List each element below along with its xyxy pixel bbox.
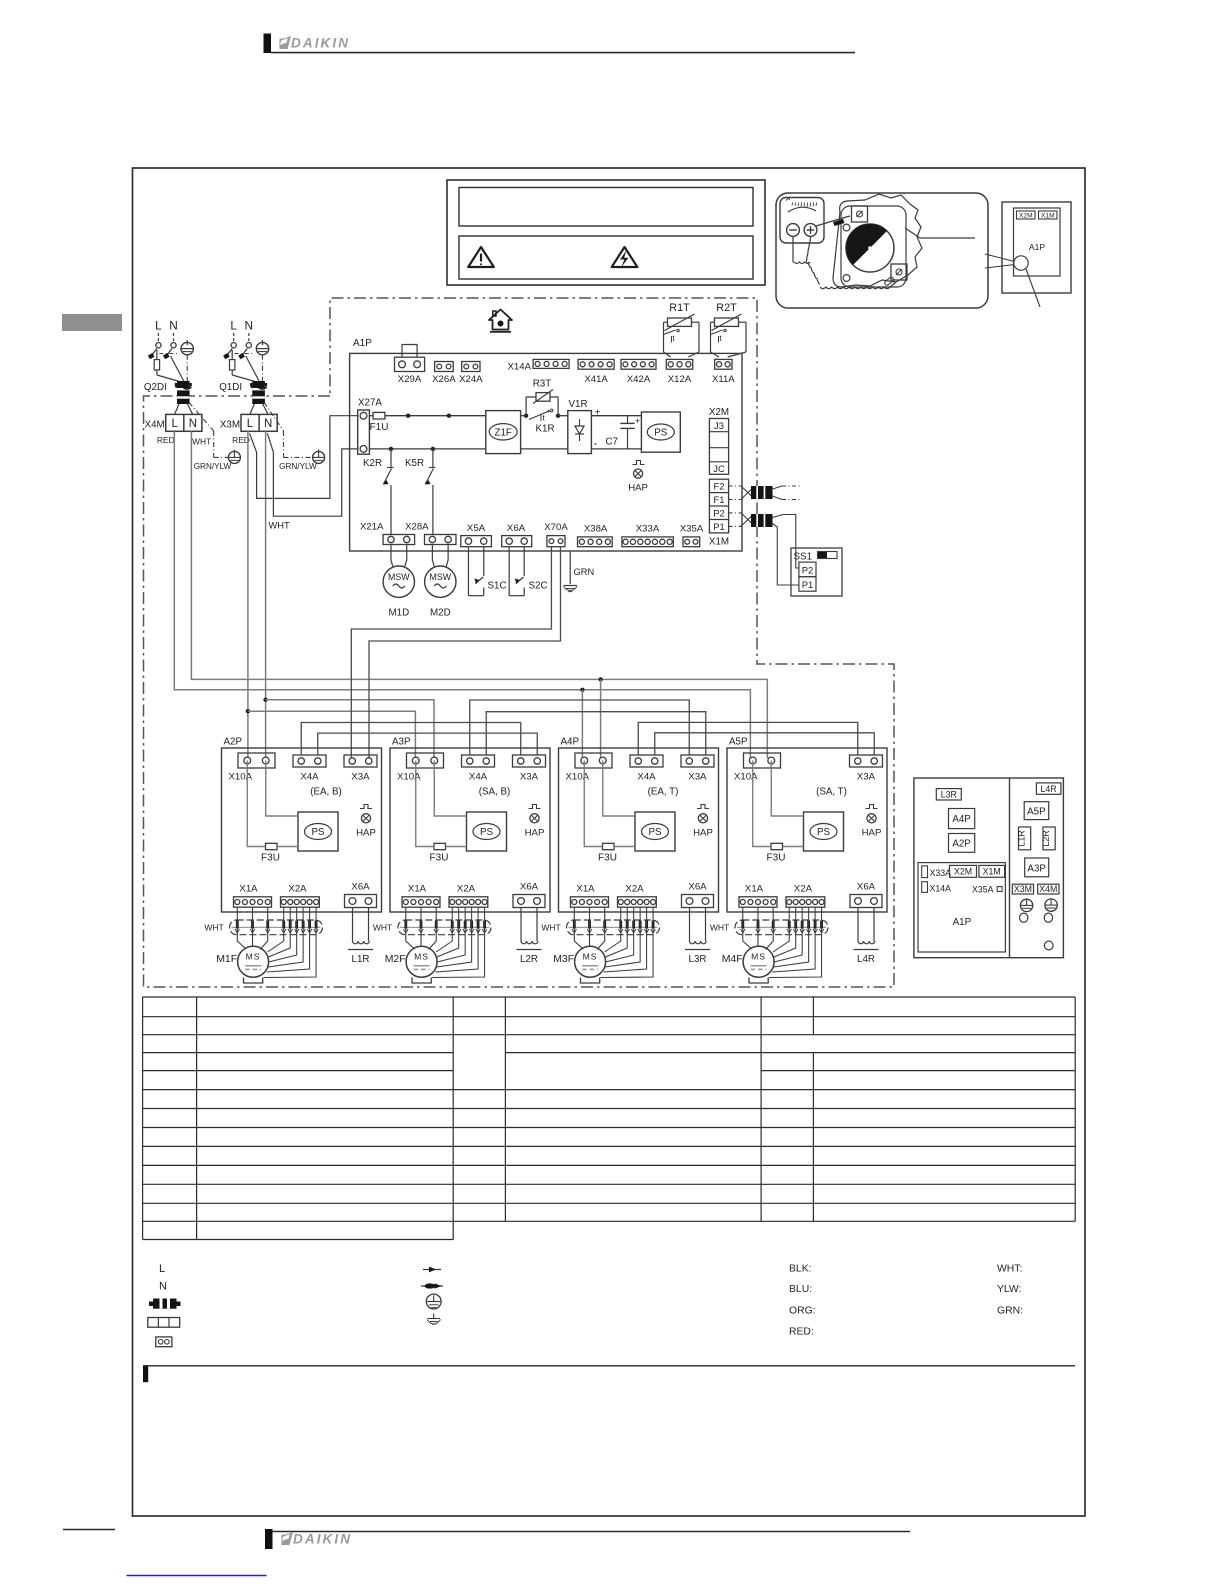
svg-text:X33A: X33A [636,524,660,535]
fan mounting plate [841,206,906,287]
connector X2A (A4P) [618,897,657,907]
pointer lines to service port [985,254,1015,262]
footer link underline [127,1575,267,1577]
svg-text:X3M: X3M [1014,884,1032,894]
junction on X4M-L feed [580,688,584,692]
svg-text:HAP: HAP [356,827,376,838]
motor lead connector (A2P) [230,920,323,935]
svg-text:L4R: L4R [1041,784,1057,794]
svg-text:MSW: MSW [430,572,452,582]
layout X14A [922,882,928,893]
fan motor M3F (A4P) [575,946,606,977]
svg-text:C7: C7 [605,437,618,448]
svg-text:V1R: V1R [568,399,587,410]
legend table grid [143,996,1076,998]
motor lead pins (A3P) [404,921,407,929]
svg-text:RED: RED [157,435,175,445]
warning note title box [459,188,753,227]
connector X1A (A4P) [571,897,609,907]
field wiring F1 lead [729,499,741,501]
limit switch S1C [467,547,469,596]
fan motor M1F (A2P) [238,946,269,977]
connector X1A (A3P) [402,897,440,907]
svg-text:MS: MS [583,952,598,962]
power supply PS [641,412,680,452]
svg-text:X35A: X35A [680,524,704,535]
connector X24A [462,362,480,372]
svg-text:M2D: M2D [430,608,451,619]
legend terminal symbol [156,1337,172,1347]
relay contact K1R [529,411,549,420]
svg-text:X2A: X2A [794,884,813,895]
connector X10A (A2P) [238,753,275,768]
connector X3A (A5P) [850,755,883,767]
fan terminal box lower [891,264,907,280]
internal wiring X10A to PS (A3P) [416,761,434,847]
wire X4M-L (RED) feed [174,431,750,758]
warning note outer box [447,180,765,285]
svg-text:PS: PS [480,827,494,838]
svg-text:F1: F1 [714,494,725,505]
junction on X3M-L feed [246,709,250,713]
fuse F3U (A3P) [434,843,446,849]
svg-text:X2A: X2A [457,884,476,895]
connector X4A (A4P) [630,755,663,767]
svg-text:MS: MS [414,952,429,962]
ferrite output leads to X4M [175,404,180,414]
wire branch to A4P X10A-right [600,679,602,758]
wire X3M-N (WHT) feed [265,431,267,758]
motor lead pins (A5P) [741,921,744,929]
layout label L4R [1036,783,1061,794]
svg-text:S2C: S2C [529,581,548,592]
fuse F3U (A2P) [266,843,278,849]
svg-text:X26A: X26A [432,374,456,385]
svg-text:F3U: F3U [261,853,280,864]
fan board A2P outline [222,748,382,912]
svg-text:A5P: A5P [1027,807,1046,818]
svg-text:SS1: SS1 [794,552,813,563]
earth symbol GRN [564,585,578,587]
wire bus to A3P X10A-left [248,711,416,758]
service port circle [1014,256,1028,270]
fan rotor [846,224,894,272]
layout hole 1 [1020,913,1028,922]
svg-text:M2F: M2F [385,953,406,965]
svg-text:X42A: X42A [627,374,651,385]
svg-text:N: N [159,1281,167,1293]
X1M label plate [1039,211,1058,219]
motor wires X2A (A3P) [436,907,452,952]
unit casing boundary (dash-dot) [144,298,895,987]
svg-text:MS: MS [246,952,261,962]
svg-text:X6A: X6A [507,523,526,534]
connector X12A [666,359,692,369]
svg-text:X4M: X4M [1039,884,1057,894]
svg-text:X14A: X14A [930,884,952,894]
limit switch S2C [508,547,510,596]
svg-text:X2M: X2M [709,407,729,418]
connector X33A [622,537,673,547]
svg-text:PS: PS [817,827,831,838]
svg-text:P2: P2 [802,565,813,576]
wire X70A-right daisy feed [369,547,560,758]
warning note text box [459,236,753,279]
connector X2A (A2P) [281,897,320,907]
svg-text:X1A: X1A [745,884,764,895]
svg-text:HAP: HAP [628,483,648,494]
wire X3M-N to X27A bottom [267,433,357,516]
svg-text:HAP: HAP [525,827,545,838]
wire P-ferrite to SS1 P2 [773,515,799,569]
svg-text:X3A: X3A [688,772,707,783]
svg-text:L: L [247,418,254,430]
svg-text:X3A: X3A [351,772,370,783]
fuse F1U [373,412,385,419]
svg-text:A2P: A2P [952,839,971,850]
svg-text:X29A: X29A [398,374,422,385]
layout label A2P [949,834,975,853]
power supply PS (A3P) [467,812,507,851]
svg-text:PS: PS [311,827,325,838]
field wiring F2 lead [729,485,741,487]
terminal strip X1M (F2 F1 P2 P1) [709,479,728,533]
svg-text:X4A: X4A [637,772,656,783]
junction X22A rail [406,414,410,418]
svg-text:A1P: A1P [953,917,972,928]
noise filter Z1F [486,411,521,454]
svg-text:M1D: M1D [388,608,409,619]
jumper on X29A [402,345,417,358]
svg-text:R2T: R2T [716,302,737,314]
svg-text:PS: PS [648,827,662,838]
twist flare into F ferrite [741,486,752,496]
wire A4P X4A-left to A5P X3A-left [638,722,858,755]
svg-text:F2: F2 [714,481,725,492]
fan motor plate [833,194,922,287]
svg-text:R3T: R3T [533,379,552,390]
control box note enclosure [1002,202,1071,293]
outer sheet border [133,168,1086,1516]
fan board A4P outline [559,748,719,912]
earth lead X4M GRN/YLW [189,403,214,432]
house / indoor symbol [489,310,512,332]
svg-text:JC: JC [713,463,725,474]
notes rule [143,1365,148,1382]
svg-text:L1R: L1R [1017,830,1027,846]
svg-text:WHT: WHT [269,521,290,531]
svg-text:MS: MS [751,952,766,962]
terminal block X4M [166,414,202,431]
legend connector strip symbol [148,1318,180,1328]
damper motor M2D [432,545,434,567]
svg-text:M3F: M3F [553,953,574,965]
wire bus to A3P X10A-right [266,700,434,758]
junction X28A rail [447,414,451,418]
earth symbol (X3M) [313,451,325,463]
svg-text:WHT: WHT [204,923,223,933]
svg-text:°: ° [547,409,550,418]
svg-text:F3U: F3U [598,853,617,864]
svg-text:X1M: X1M [709,536,729,547]
wire Z1F bottom to V1R [521,448,568,450]
svg-text:F3U: F3U [767,853,786,864]
svg-text:X1A: X1A [239,884,258,895]
layout label A5P [1024,802,1049,820]
svg-text:X4A: X4A [469,772,488,783]
probe lead to upper terminal [816,216,850,226]
multimeter body [780,198,824,244]
connector X6A [502,536,532,547]
connector X4A (A3P) [462,755,495,767]
svg-text:X2A: X2A [625,884,644,895]
fan plate screw holes [843,224,850,231]
svg-text:X10A: X10A [734,772,758,783]
svg-text:X70A: X70A [544,522,568,533]
breaker Q2DI [157,333,159,342]
layout label A4P [949,809,975,829]
svg-text:L: L [171,418,178,430]
svg-text:GRN:: GRN: [997,1305,1023,1316]
status lamp HAP (A4P) [697,805,709,809]
coiled test lead [792,237,794,262]
connector X3A (A4P) [681,755,714,767]
motor lead pins (A4P) [573,921,576,929]
svg-text:X1A: X1A [408,884,427,895]
layout X1M plate [979,865,1005,877]
reactor L4R (A5P) [857,908,859,941]
ferrite core on P1/P2 [751,514,773,527]
wire A3P X4A-right to A4P X3A-right [486,712,706,755]
svg-text:N: N [245,319,254,333]
svg-text:N: N [264,418,272,430]
svg-text:A2P: A2P [224,737,243,748]
svg-text:X1M: X1M [1041,213,1055,220]
status lamp HAP [633,461,645,465]
svg-text:M1F: M1F [216,953,237,965]
svg-text:Z1F: Z1F [494,427,511,438]
svg-text:WHT:: WHT: [997,1263,1022,1274]
svg-text:S1C: S1C [488,581,507,592]
svg-text:GRN/YLW: GRN/YLW [194,462,232,471]
reactor L2R (A3P) [520,908,522,941]
layout hole 2 [1044,913,1052,922]
legend ferrite symbol [149,1302,153,1307]
reactor L1R (A2P) [352,908,354,941]
GRN earth lead [569,551,571,584]
svg-text:X2M: X2M [1019,213,1033,220]
pointer line from port [1026,269,1040,307]
fuse F3U (A4P) [603,843,615,849]
svg-text:X3A: X3A [520,772,539,783]
svg-text:Q1DI: Q1DI [219,382,242,393]
connector X2A (A3P) [449,897,488,907]
svg-text:X24A: X24A [459,374,483,385]
svg-text:(EA, B): (EA, B) [310,787,342,798]
header logo bar [264,34,351,54]
svg-text:A4P: A4P [952,814,971,825]
earth symbol (X4M) [228,451,240,463]
svg-text:BLU:: BLU: [789,1284,812,1295]
svg-text:X6A: X6A [351,882,370,893]
svg-text:X2M: X2M [954,867,972,877]
svg-text:(SA, B): (SA, B) [479,787,511,798]
earth terminal at Q2DI [181,342,193,354]
svg-text:L1R: L1R [352,954,370,965]
warning triangle (electric shock) [612,247,638,267]
wire X3M-L (RED) feed [247,431,249,758]
X2M label plate [1017,211,1036,219]
connector X10A (A3P) [407,753,444,768]
footer rule [273,1531,911,1533]
wire X27A bottom rail [369,448,485,450]
svg-text:-: - [594,438,598,450]
svg-text:L3R: L3R [941,790,957,800]
status lamp HAP (A5P) [866,805,878,809]
field wiring P1 lead [729,525,741,527]
wire V1R to PS [591,415,641,417]
legend noiseless earth [428,1318,441,1320]
svg-text:WHT: WHT [541,923,560,933]
svg-text:WHT: WHT [710,923,729,933]
wire P-ferrite to SS1 P1 [773,524,799,586]
motor wires X1A (A2P) [237,907,246,949]
motor wires X1A (A3P) [406,907,415,949]
multimeter scale [786,198,817,212]
legend protective earth [426,1294,441,1309]
internal wiring X10A to PS (A5P) [753,761,771,847]
layout label L2R [1043,827,1055,850]
twist flare into P ferrite [741,513,752,523]
fan terminal box upper [852,206,868,222]
remote selector SS1 [791,548,842,596]
motor lead connector (A5P) [735,920,828,935]
junction on X3M-N feed [263,698,267,702]
svg-text:X3A: X3A [857,772,876,783]
connector X10A (A4P) [575,753,612,768]
svg-text:(SA, T): (SA, T) [816,787,847,798]
main PCB A1P outline [350,353,742,551]
earth lead into ferrite (Q2DI) [186,355,188,382]
svg-text:A1P: A1P [1029,242,1046,252]
svg-text:L3R: L3R [689,954,707,965]
damper motor M1D [391,545,393,567]
multimeter plus probe jack [804,224,817,237]
svg-text:X1M: X1M [983,867,1001,877]
svg-text:M4F: M4F [722,953,743,965]
legend field-wire arrow 2 [421,1285,443,1287]
svg-text:X6A: X6A [688,882,707,893]
motor wires X2A (A4P) [605,907,621,952]
svg-text:GRN/YLW: GRN/YLW [279,462,317,471]
multimeter minus probe jack [787,224,800,237]
wire A2P X4A-right to A3P X3A-right [318,733,538,755]
svg-text:PS: PS [654,428,668,439]
wire X4M-N (WHT) feed [191,431,767,758]
layout earth 2 [1045,899,1057,911]
power supply PS (A4P) [635,812,675,851]
svg-text:RED:: RED: [789,1327,814,1338]
coiled lead to lower terminal [808,262,820,284]
power supply PS (A2P) [298,812,338,851]
svg-text:N: N [189,418,197,430]
motor wires X2A (A5P) [773,907,789,952]
connector X1A (A5P) [739,897,777,907]
svg-text:X27A: X27A [358,398,382,409]
svg-text:DAIKIN: DAIKIN [291,36,350,51]
svg-text:A4P: A4P [561,737,580,748]
layout label A3P [1025,858,1049,877]
svg-text:YLW:: YLW: [997,1284,1021,1295]
motor lead connector (A4P) [567,920,660,935]
svg-text:R1T: R1T [669,302,690,314]
layout X3M plate [1012,884,1033,894]
fan board A3P outline [390,748,550,912]
breaker Q1DI [233,333,235,342]
footer left tick line [63,1529,115,1531]
svg-text:X21A: X21A [360,521,384,532]
connector X1A (A2P) [234,897,272,907]
layout earth 1 [1020,899,1032,911]
fan motor M4F (A5P) [743,946,774,977]
terminal block X3M [241,414,277,431]
connector X70A [547,536,565,547]
svg-text:DAIKIN: DAIKIN [293,1532,352,1547]
connector X10A (A5P) [744,753,781,768]
connector X28A [425,535,457,545]
svg-text:+: + [635,416,640,426]
svg-text:X14A: X14A [508,361,532,372]
wire X3M-L to X27A top [250,416,358,499]
grey margin marker [62,314,122,331]
svg-text:X5A: X5A [467,523,486,534]
reactor L3R (A4P) [689,908,691,941]
svg-text:X6A: X6A [520,882,539,893]
connector X41A [578,359,614,369]
warning triangle (exclamation) [468,247,494,267]
earth terminal at Q1DI [256,342,268,354]
svg-text:X4A: X4A [300,772,319,783]
internal wiring X10A to PS (A2P) [247,761,265,847]
power supply PS (A5P) [804,812,844,851]
svg-text:X10A: X10A [229,772,253,783]
wire A4P X4A-right to A5P X3A-right [655,733,875,755]
svg-text:L: L [159,1263,165,1275]
svg-text:A3P: A3P [1027,864,1046,875]
svg-text:(EA, T): (EA, T) [648,787,679,798]
motor wires X1A (A4P) [574,907,583,949]
earth lead into ferrite (Q1DI) [262,355,264,382]
layout hole 3 [1044,941,1053,950]
svg-text:L4R: L4R [857,954,875,965]
layout X4M plate [1038,884,1059,894]
layout X33A [922,866,928,878]
connector X4A (A2P) [293,755,326,767]
svg-text:WHT: WHT [373,923,392,933]
fan board A5P outline [727,748,887,912]
svg-text:A1P: A1P [353,338,372,349]
connector X5A [461,536,492,547]
svg-text:MSW: MSW [388,572,410,582]
svg-text:X38A: X38A [584,524,608,535]
svg-text:ORG:: ORG: [789,1305,816,1316]
svg-text:X28A: X28A [405,521,429,532]
wire X27A top rail [369,415,373,417]
svg-text:HAP: HAP [862,827,882,838]
connector X2A (A5P) [786,897,825,907]
control box inner panel [1014,208,1061,276]
status lamp HAP (A2P) [360,805,372,809]
